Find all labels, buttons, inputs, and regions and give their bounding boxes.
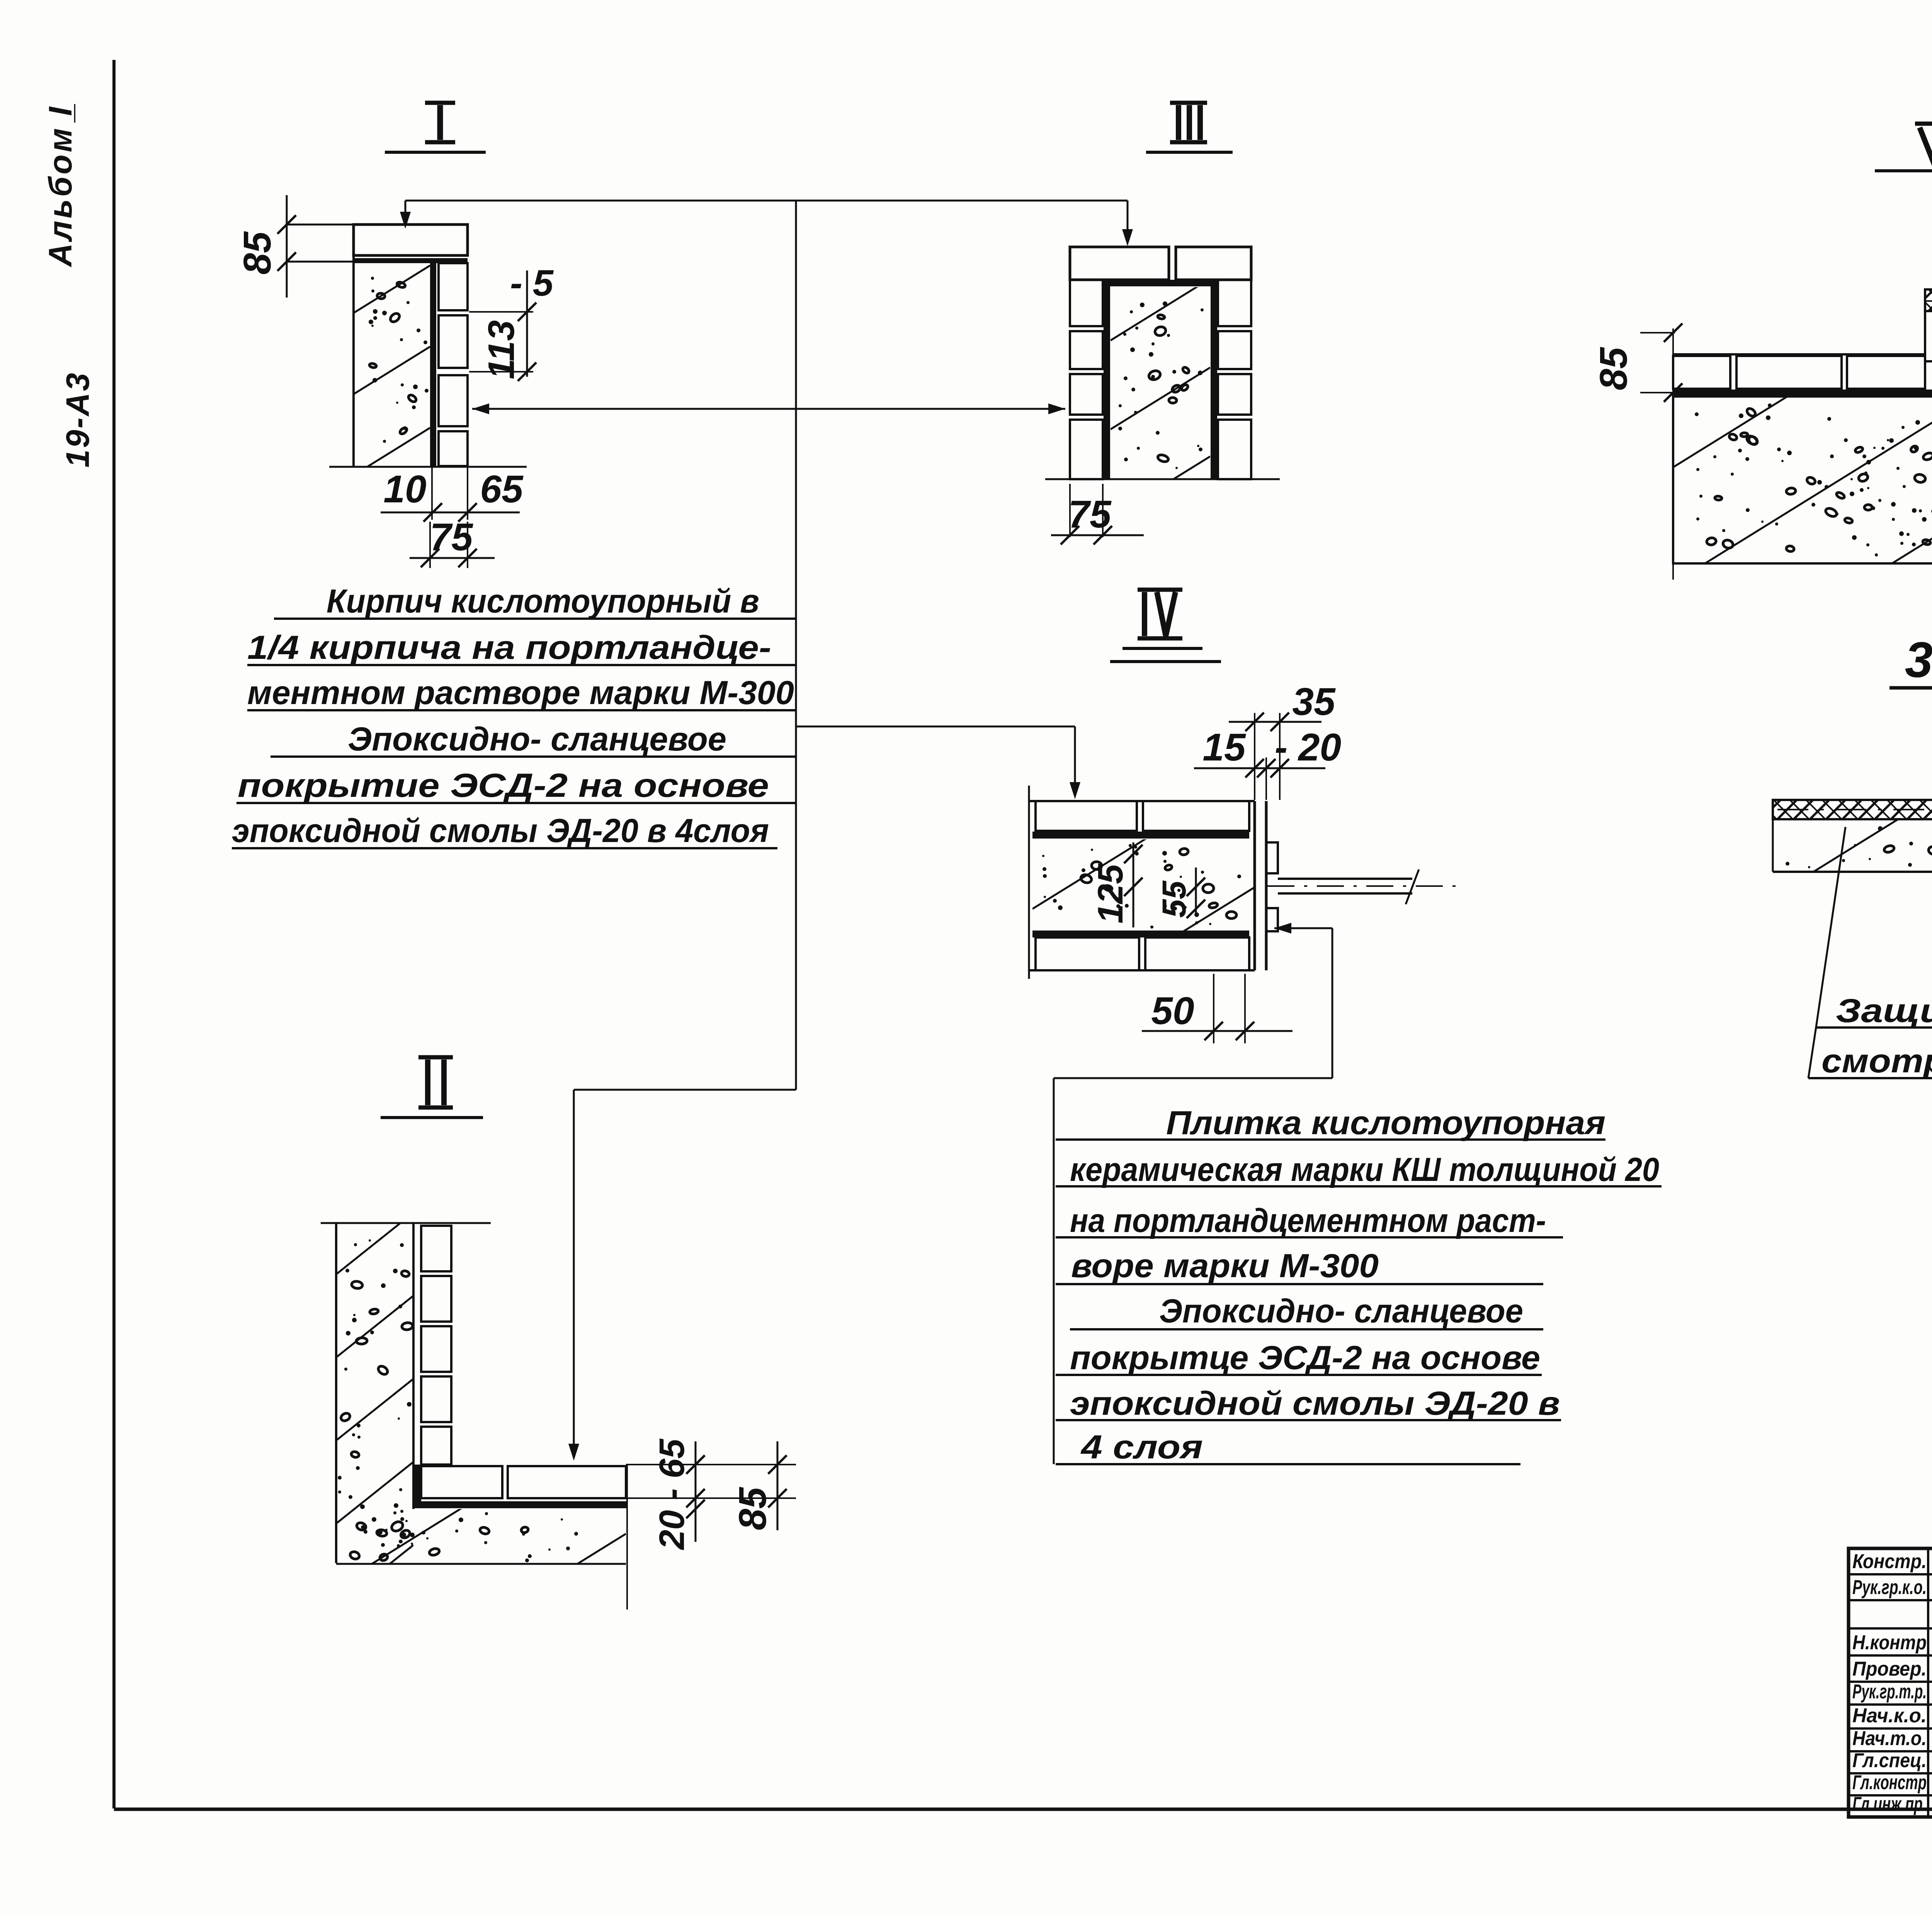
svg-text:- 5: - 5 (510, 262, 554, 304)
svg-text:покрытие ЭСД-2 на основе: покрытие ЭСД-2 на основе (238, 767, 769, 804)
svg-text:Нач.т.о.: Нач.т.о. (1852, 1727, 1927, 1750)
svg-text:Рук.гр.т.р.: Рук.гр.т.р. (1852, 1681, 1927, 1703)
svg-text:Плитка кислотоупорная: Плитка кислотоупорная (1166, 1104, 1605, 1142)
svg-text:Защиту лотка: Защиту лотка (1836, 992, 1932, 1029)
svg-text:эпоксидной смолы ЭД-20 в 4слоя: эпоксидной смолы ЭД-20 в 4слоя (232, 812, 769, 849)
svg-text:125: 125 (1091, 864, 1130, 924)
svg-text:20 - 65: 20 - 65 (652, 1438, 692, 1550)
svg-text:19-А3: 19-А3 (60, 371, 96, 468)
svg-text:Гл.инж.пр.: Гл.инж.пр. (1852, 1793, 1927, 1815)
svg-text:ментном растворе марки М-300: ментном растворе марки М-300 (247, 674, 794, 711)
svg-text:покрытце ЭСД-2 на основе: покрытце ЭСД-2 на основе (1070, 1339, 1540, 1376)
svg-text:85: 85 (731, 1487, 774, 1530)
svg-text:Эпоксидно- сланцевое: Эпоксидно- сланцевое (1159, 1293, 1523, 1330)
svg-text:55: 55 (1156, 880, 1193, 918)
svg-text:65: 65 (480, 468, 524, 511)
svg-text:35: 35 (1292, 680, 1336, 723)
svg-text:Эпоксидно- сланцевое: Эпоксидно- сланцевое (348, 721, 726, 758)
svg-text:керамическая марки КШ толщин: керамическая марки КШ толщиной 20 (1070, 1151, 1659, 1188)
svg-text:15: 15 (1202, 726, 1246, 769)
svg-text:Провер.: Провер. (1852, 1658, 1927, 1680)
svg-text:3 - 3: 3 - 3 (1905, 631, 1932, 688)
svg-text:Рук.гр.к.о.: Рук.гр.к.о. (1852, 1576, 1927, 1599)
svg-text:эпоксидной смолы ЭД-20 в: эпоксидной смолы ЭД-20 в (1070, 1385, 1560, 1422)
svg-text:10: 10 (383, 468, 426, 511)
svg-text:75: 75 (430, 515, 473, 559)
svg-text:Н.контр: Н.контр (1852, 1631, 1927, 1654)
svg-text:Гл.спец.: Гл.спец. (1852, 1749, 1927, 1772)
svg-text:113: 113 (481, 320, 522, 379)
svg-text:1/4 кирпича на портландце-: 1/4 кирпича на портландце- (247, 629, 771, 666)
svg-text:Нач.к.о.: Нач.к.о. (1852, 1705, 1927, 1727)
svg-text:85: 85 (1592, 347, 1635, 390)
svg-text:75: 75 (1068, 493, 1112, 536)
svg-text:Кирпич кислотоупорный в: Кирпич кислотоупорный в (327, 583, 759, 620)
svg-text:4 слоя: 4 слоя (1080, 1429, 1203, 1466)
svg-text:50: 50 (1151, 989, 1194, 1033)
svg-text:на портландцементном раст-: на портландцементном раст- (1070, 1202, 1546, 1239)
svg-text:Констр.: Констр. (1852, 1550, 1927, 1573)
svg-text:смотри лист 28: смотри лист 28 (1821, 1043, 1932, 1080)
svg-text:Альбом: Альбом (42, 126, 78, 267)
svg-text:Гл.констр: Гл.констр (1852, 1771, 1927, 1794)
svg-text:- 20: - 20 (1275, 726, 1341, 769)
svg-text:воре марки М-300: воре марки М-300 (1071, 1247, 1379, 1284)
svg-text:85: 85 (236, 231, 279, 275)
